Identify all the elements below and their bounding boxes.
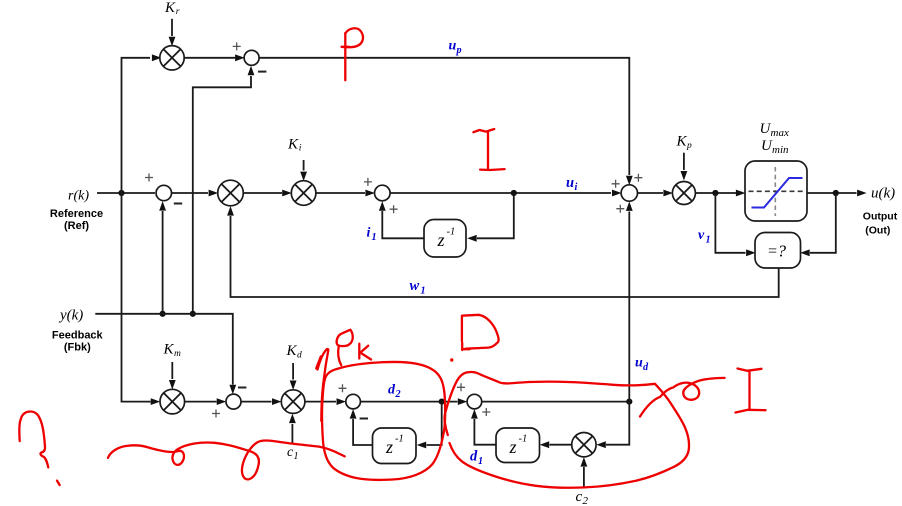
summing junction S2 [156,185,171,200]
svg-text:1: 1 [421,286,426,297]
sign plus S2 [145,174,153,182]
node F output tap [833,190,839,196]
svg-text:-1: -1 [395,434,404,445]
sign plus S5 [339,384,347,392]
wire zi block to Si plus bottom [379,201,424,238]
wire w1 from comparator bottom to M2a bottom [227,206,779,297]
svg-text:K: K [163,342,175,358]
label v_1 blue [698,228,711,246]
label Km [163,342,182,360]
sign plus S3 bottom [616,205,624,213]
label u_i blue [566,175,578,193]
wire r-node down to M3 [122,193,161,405]
label d_2 blue [388,383,401,401]
label c1 [287,445,299,462]
node C on y(k) line [160,311,166,317]
sign plus Si bottom [390,205,398,213]
multiplier M2a [218,180,244,206]
wire S4 to M4 [241,398,282,405]
summing junction S3 [621,185,637,201]
svg-text:K: K [286,343,298,359]
wire integrator tap down into zi block [467,193,514,242]
delay block z1 [496,428,540,463]
label Kd [286,343,303,361]
wire M1 to S1 [184,54,244,61]
delay block zi [424,220,466,258]
svg-text:Feedback: Feedback [52,330,104,342]
summing junction S5 [346,394,361,409]
sign plus S1 [233,42,241,50]
red annotation loop around d2 section [322,362,445,480]
sign plus S3 top [634,174,642,182]
sign plus Si left [364,178,372,186]
red annotation left squiggle [19,411,59,485]
label u_d blue [635,356,649,374]
svg-text:1: 1 [478,456,483,467]
summing junction S1 [244,50,259,65]
svg-text:i: i [299,144,302,154]
wire u_d up into S3 bottom [626,201,633,401]
svg-text:2: 2 [583,495,589,506]
wire M3 to S4 [185,398,227,405]
wire Mkp to saturation block [695,190,745,197]
wire u_i from Si to S3 [390,190,621,197]
svg-text:d: d [470,449,478,465]
wire r-node up to multiplier Kr [122,54,162,193]
svg-text:u: u [449,39,457,54]
svg-text:max: max [771,127,789,139]
wire y(k) input lead down into S4 minus [95,314,236,395]
wire d2 tap down into z2 block [417,402,442,449]
node E v1 tap [712,190,718,196]
label Umin [761,138,789,156]
wire saturation to u(k) output [807,190,867,197]
svg-text:K: K [676,134,688,150]
svg-text:v: v [698,228,705,243]
svg-text:2: 2 [395,389,401,400]
multiplier M2b Ki [291,181,316,206]
wire c2 arrow up into M5 bottom [581,457,588,488]
sign minus S5 [360,418,368,420]
svg-text:z: z [437,230,445,250]
red annotation letter I first [473,129,504,170]
sign plus S3 left [612,180,620,188]
svg-text:K: K [164,0,176,16]
svg-text:Reference: Reference [50,208,103,220]
svg-text:m: m [174,349,181,359]
svg-text:i: i [575,182,578,193]
node G d2 tap [439,399,445,405]
svg-text:r(k): r(k) [68,189,89,204]
saturation block Umax Umin [745,161,807,221]
multiplier M1 Kr [160,46,184,70]
label i_1 blue [367,226,377,244]
summing junction S6 [467,394,482,409]
wire S3 to Mkp [638,190,673,197]
label Kp [676,134,693,152]
svg-text:(Fbk): (Fbk) [64,342,91,354]
label Umax [760,121,789,139]
red annotation letter I second [736,369,766,413]
label Reference (Ref) [50,208,103,232]
label u_p blue [449,39,462,57]
sign plus S6 bottom [482,408,490,416]
sign minus S2 [174,203,182,205]
red annotation scribble lambda-e-k [316,330,371,421]
node B on y(k) line [190,311,196,317]
wire v1 from node E down into comparator [715,193,755,256]
svg-text:-1: -1 [519,434,528,445]
svg-text:u: u [635,356,643,371]
red annotation pigtail curl [640,378,725,417]
red annotation long wavy line [108,441,345,480]
svg-text:1: 1 [372,232,377,243]
summing junction S4 [226,394,241,409]
wire z2 block to S5 minus bottom [350,409,373,445]
multiplier Mkp [672,182,695,205]
svg-text:(Ref): (Ref) [64,220,89,232]
wire M4 to S5 [305,398,346,405]
wire Km gain arrow [169,362,176,390]
svg-text:(Out): (Out) [865,225,890,237]
wire feedback from y(k) node up into S2 minus [159,201,166,314]
node A r(k) branch [118,190,124,196]
svg-text:d: d [297,351,302,361]
wire Kr gain arrow [169,19,176,46]
label d_1 blue [470,449,483,468]
wire Kp gain arrow [681,153,688,181]
sign plus S4 [212,410,220,418]
wire u_d node down into M5 right [596,402,629,449]
svg-text:K: K [287,137,299,153]
wire S2 to M2a [172,190,219,197]
red annotation letter D [462,315,499,350]
svg-text:r: r [176,7,180,17]
wire Ki gain arrow [300,160,307,181]
node D integrator tap [511,190,517,196]
wire output tap down into comparator right [800,193,836,256]
svg-text:min: min [772,144,789,156]
wire M2a to M2b [243,190,291,197]
label Feedback (Fbk) [52,330,104,354]
wire feedback from y(k) node up into S1 minus [193,66,255,314]
svg-text:i: i [367,226,371,241]
label Kr [164,0,180,17]
wire M2b to Si [316,190,375,197]
multiplier M4 Kd [281,390,305,414]
svg-text:1: 1 [294,451,299,462]
wire S6 to u_d node [482,401,630,403]
multiplier M3 Km [160,389,185,414]
label c2 [576,489,589,506]
wire S5 to S6 d2 [360,398,467,405]
wire c1 arrow up into M4 bottom [289,414,296,444]
sign plus S6 left [457,383,465,391]
label Ki [287,137,302,154]
wire Kd gain arrow [290,363,297,390]
svg-text:1: 1 [706,235,711,246]
sign minus S4 [238,387,246,389]
svg-text:?: ? [778,242,787,261]
svg-text:c: c [576,489,583,505]
red annotation loop around d1 section [445,372,689,488]
node H u_d junction [626,399,632,405]
summing junction Si [375,185,391,201]
svg-text:d: d [643,362,649,373]
svg-text:p: p [686,141,692,151]
sign minus S1 [258,71,266,73]
svg-text:z: z [509,437,517,457]
label Output (Out) [863,211,898,237]
svg-text:w: w [410,278,420,294]
delay block z2 [373,428,417,464]
wire z1 block to S6 plus bottom [471,409,496,445]
multiplier M5 c2 [572,433,596,457]
svg-text:u(k): u(k) [871,186,895,202]
red annotation letter P [342,28,363,80]
wire r(k) input lead [97,190,165,197]
comparator block =? [755,233,801,269]
svg-text:y(k): y(k) [58,308,83,324]
svg-text:-1: -1 [447,227,456,238]
wire M5 to z1 block [540,441,572,448]
svg-text:z: z [385,437,393,457]
svg-text:=: = [767,243,778,260]
wire u_p from S1 to S3 top [259,58,633,185]
red annotation dot [450,358,453,361]
svg-text:p: p [456,45,462,56]
svg-text:u: u [566,175,574,191]
svg-text:Output: Output [863,211,898,223]
label w_1 blue [410,278,426,297]
